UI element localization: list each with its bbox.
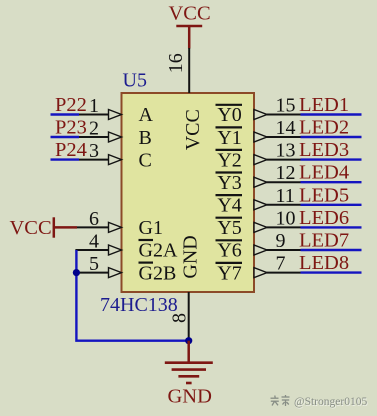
svg-text:LED3: LED3: [299, 139, 349, 161]
svg-text:Y1: Y1: [217, 127, 241, 149]
svg-text:12: 12: [276, 162, 296, 184]
svg-text:A: A: [139, 104, 154, 126]
svg-text:Y4: Y4: [217, 195, 241, 217]
svg-text:Y5: Y5: [217, 217, 241, 239]
svg-text:P22: P22: [55, 94, 87, 116]
svg-text:11: 11: [276, 185, 295, 207]
svg-text:P23: P23: [55, 117, 87, 139]
svg-text:7: 7: [276, 253, 286, 275]
svg-text:1: 1: [89, 95, 99, 117]
svg-text:15: 15: [276, 95, 296, 117]
svg-text:9: 9: [276, 230, 286, 252]
svg-text:VCC: VCC: [169, 3, 211, 25]
svg-text:B: B: [139, 127, 152, 149]
svg-text:@Stronger0105: @Stronger0105: [294, 396, 367, 408]
svg-text:3: 3: [89, 140, 99, 162]
svg-text:LED7: LED7: [299, 230, 349, 252]
svg-text:14: 14: [276, 117, 296, 139]
svg-text:13: 13: [276, 140, 296, 162]
svg-text:GND: GND: [168, 386, 212, 408]
svg-text:VCC: VCC: [10, 217, 52, 239]
svg-text:GND: GND: [179, 235, 201, 278]
svg-text:74HC138: 74HC138: [100, 294, 178, 316]
svg-text:5: 5: [89, 253, 99, 275]
svg-text:LED4: LED4: [299, 162, 349, 184]
svg-text:Y3: Y3: [217, 172, 241, 194]
svg-text:6: 6: [89, 208, 99, 230]
svg-text:C: C: [139, 149, 152, 171]
svg-text:LED6: LED6: [299, 207, 349, 229]
svg-text:G2A: G2A: [139, 240, 178, 262]
svg-text:LED8: LED8: [299, 252, 349, 274]
svg-text:LED1: LED1: [299, 94, 349, 116]
svg-text:LED5: LED5: [299, 184, 349, 206]
svg-text:4: 4: [89, 231, 99, 253]
svg-text:G1: G1: [139, 217, 163, 239]
svg-text:10: 10: [276, 207, 296, 229]
svg-text:Y7: Y7: [217, 262, 241, 284]
svg-text:G2B: G2B: [139, 262, 177, 284]
svg-text:Y2: Y2: [217, 149, 241, 171]
svg-text:P24: P24: [55, 139, 87, 161]
svg-text:U5: U5: [123, 70, 147, 92]
svg-text:VCC: VCC: [182, 109, 204, 150]
svg-text:16: 16: [165, 53, 187, 73]
svg-text:LED2: LED2: [299, 117, 349, 139]
svg-text:Y0: Y0: [217, 104, 241, 126]
svg-text:Y6: Y6: [217, 240, 241, 262]
svg-text:2: 2: [89, 118, 99, 140]
